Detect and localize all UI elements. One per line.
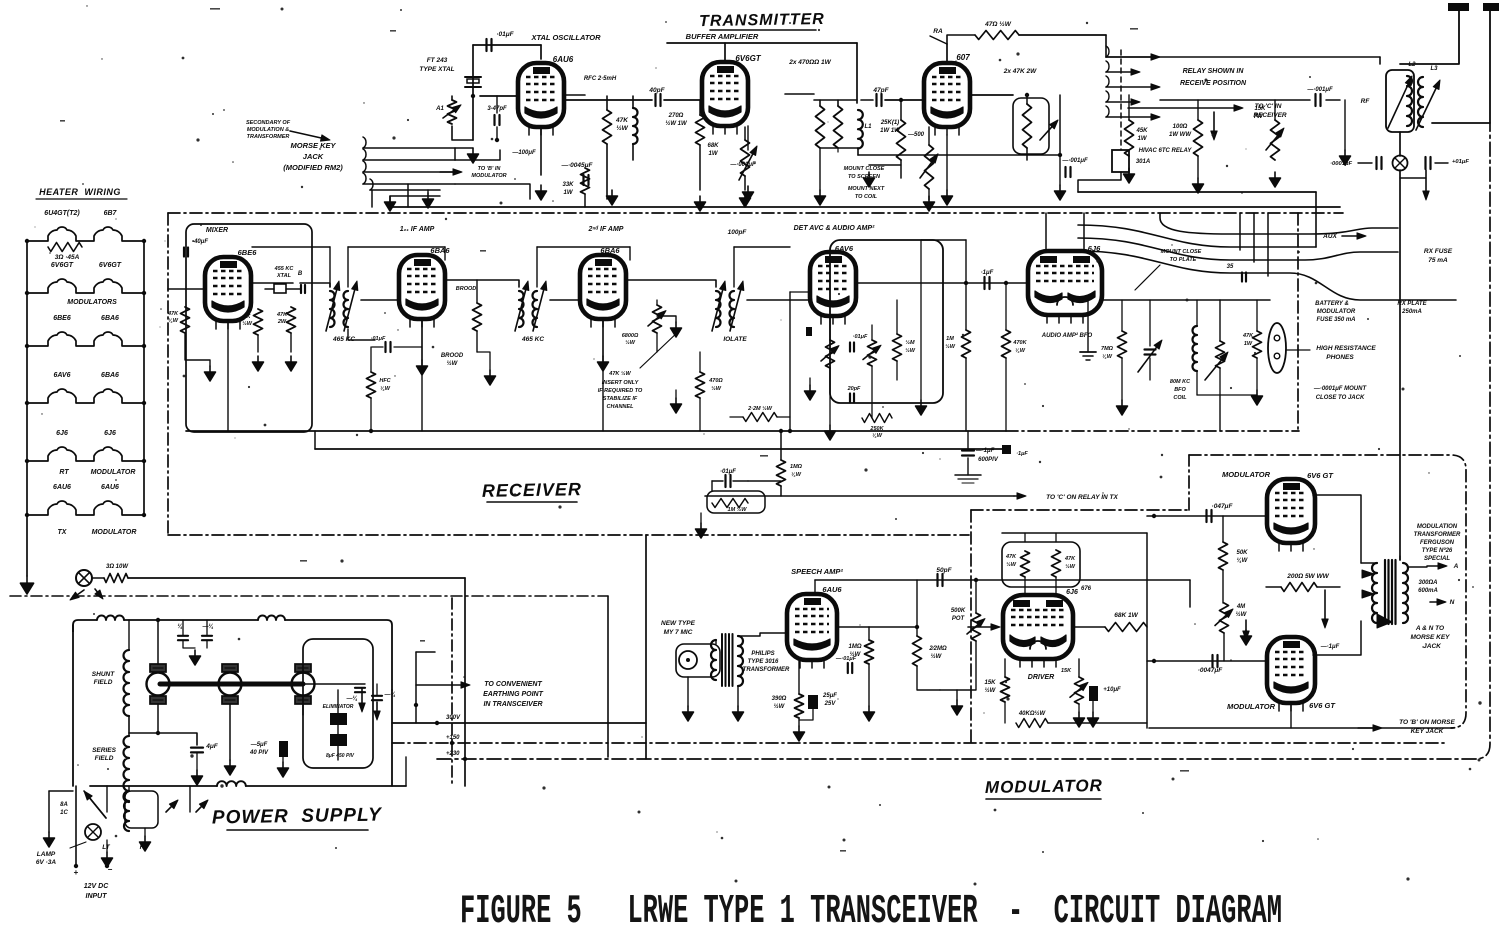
svg-text:½W: ½W: [945, 343, 956, 350]
svg-text:XTAL: XTAL: [276, 273, 292, 279]
svg-text:·047μF: ·047μF: [1212, 503, 1234, 510]
svg-text:TRANSMITTER: TRANSMITTER: [699, 11, 825, 30]
svg-text:465 KC: 465 KC: [521, 336, 544, 343]
svg-text:TYPE 3016: TYPE 3016: [748, 659, 779, 665]
svg-text:½W: ½W: [1236, 611, 1248, 618]
svg-text:MY 7 MIC: MY 7 MIC: [664, 629, 693, 636]
svg-text:68K 1W: 68K 1W: [1114, 612, 1138, 619]
svg-text:47K: 47K: [1005, 554, 1017, 560]
svg-text:4M: 4M: [1236, 604, 1246, 610]
svg-text:6V6GT: 6V6GT: [51, 262, 74, 269]
svg-text:COIL: COIL: [1173, 395, 1187, 401]
svg-text:—¼: —¼: [345, 696, 357, 702]
svg-text:MODULATION: MODULATION: [1417, 524, 1458, 530]
svg-text:6J6: 6J6: [1066, 589, 1078, 596]
svg-text:RX FUSE: RX FUSE: [1424, 248, 1453, 255]
svg-text:50pF: 50pF: [936, 567, 952, 574]
svg-text:FERGUSON: FERGUSON: [1420, 540, 1455, 546]
svg-text:MODULATOR: MODULATOR: [1227, 702, 1276, 711]
svg-text:2x 47K 2W: 2x 47K 2W: [1003, 68, 1037, 75]
svg-text:KEY JACK: KEY JACK: [1411, 728, 1445, 735]
svg-text:50K: 50K: [1236, 550, 1248, 556]
svg-text:•40μF: •40μF: [192, 239, 208, 245]
svg-text:MOUNT NEXT: MOUNT NEXT: [848, 186, 885, 192]
svg-text:6J6: 6J6: [104, 430, 116, 437]
svg-text:1MΩ: 1MΩ: [790, 464, 803, 470]
svg-text:A & N TO: A & N TO: [1415, 625, 1444, 632]
svg-text:390Ω: 390Ω: [772, 696, 787, 702]
svg-text:SECONDARY OF: SECONDARY OF: [246, 120, 291, 126]
svg-text:½W: ½W: [985, 687, 997, 694]
svg-text:INSERT ONLY: INSERT ONLY: [602, 380, 640, 386]
svg-text:½W: ½W: [625, 339, 636, 346]
svg-text:¼W: ¼W: [168, 318, 179, 324]
svg-text:TO 'C' IN: TO 'C' IN: [1255, 103, 1282, 110]
svg-text:·01μF: ·01μF: [853, 334, 868, 340]
svg-text:INPUT: INPUT: [86, 893, 108, 900]
svg-text:TX: TX: [58, 529, 68, 536]
svg-text:—·001μF: —·001μF: [1061, 158, 1088, 164]
svg-text:(MODIFIED RM2): (MODIFIED RM2): [283, 163, 343, 172]
svg-text:RECEIVER: RECEIVER: [482, 479, 582, 501]
svg-text:6AU6: 6AU6: [822, 585, 842, 594]
svg-text:TO COIL: TO COIL: [855, 194, 878, 200]
svg-text:40pF: 40pF: [648, 87, 665, 94]
svg-text:RT: RT: [59, 469, 69, 476]
svg-text:½M: ½M: [905, 339, 915, 346]
svg-text:HFC: HFC: [379, 378, 391, 384]
svg-text:40 PIV: 40 PIV: [249, 750, 269, 756]
svg-text:6AV6: 6AV6: [54, 372, 71, 379]
svg-text:½W: ½W: [774, 703, 786, 710]
svg-text:¼W: ¼W: [1237, 558, 1249, 564]
svg-text:FIELD: FIELD: [95, 755, 114, 762]
svg-text:300V: 300V: [446, 715, 461, 721]
svg-text:RA: RA: [933, 28, 943, 35]
svg-text:676: 676: [1081, 586, 1092, 592]
svg-text:L3: L3: [1430, 66, 1438, 72]
svg-text:SPECIAL: SPECIAL: [1424, 556, 1450, 562]
svg-text:¼W: ¼W: [1015, 348, 1026, 354]
svg-text:MOUNT CLOSE: MOUNT CLOSE: [1161, 249, 1202, 255]
svg-text:BFO: BFO: [1174, 387, 1186, 393]
svg-text:301A: 301A: [1136, 159, 1150, 165]
svg-text:BATTERY &: BATTERY &: [1315, 301, 1349, 307]
svg-text:15K: 15K: [984, 680, 996, 686]
svg-text:MODULATOR: MODULATOR: [92, 529, 137, 536]
svg-text:300ΩA: 300ΩA: [1418, 580, 1437, 586]
svg-text:47K: 47K: [276, 312, 288, 318]
svg-text:270Ω: 270Ω: [668, 113, 684, 119]
svg-text:6BA6: 6BA6: [101, 315, 119, 322]
svg-text:20pF: 20pF: [847, 386, 861, 392]
svg-text:MODULATOR: MODULATOR: [1317, 309, 1356, 315]
svg-text:TRANSFORMER: TRANSFORMER: [743, 667, 790, 673]
svg-text:47pF: 47pF: [872, 87, 889, 94]
svg-text:4μF: 4μF: [205, 743, 219, 750]
svg-text:6V6 GT: 6V6 GT: [1309, 701, 1336, 710]
svg-text:·0047μF: ·0047μF: [1198, 667, 1224, 674]
svg-text:455 KC: 455 KC: [274, 266, 295, 272]
svg-text:RELAY SHOWN IN: RELAY SHOWN IN: [1183, 68, 1245, 75]
svg-text:68K: 68K: [707, 143, 719, 149]
svg-text:6AU6: 6AU6: [553, 55, 574, 64]
svg-text:—·0045μF: —·0045μF: [560, 162, 593, 169]
svg-text:TRANSFORMER: TRANSFORMER: [247, 134, 290, 140]
svg-text:MIXER: MIXER: [206, 227, 228, 234]
svg-text:·01μF: ·01μF: [371, 336, 386, 342]
svg-text:IN TRANSCEIVER: IN TRANSCEIVER: [483, 701, 542, 708]
svg-text:EARTHING POINT: EARTHING POINT: [483, 691, 543, 698]
svg-text:1W: 1W: [709, 151, 719, 157]
svg-text:250K: 250K: [869, 426, 884, 432]
svg-text:½W 1W: ½W 1W: [665, 120, 688, 127]
svg-text:7MΩ: 7MΩ: [1101, 346, 1114, 352]
svg-text:JACK: JACK: [303, 152, 324, 161]
svg-text:47K ½W: 47K ½W: [608, 370, 631, 377]
svg-text:½W: ½W: [242, 320, 253, 327]
svg-text:½W: ½W: [447, 360, 459, 367]
svg-text:607: 607: [956, 53, 970, 62]
svg-text:RF: RF: [1361, 98, 1371, 105]
svg-text:TRANSFORMER: TRANSFORMER: [1414, 532, 1461, 538]
svg-text:TYPE XTAL: TYPE XTAL: [419, 66, 454, 73]
svg-text:1W WW: 1W WW: [1169, 132, 1192, 138]
svg-text:N: N: [1450, 599, 1455, 606]
svg-text:500K: 500K: [951, 608, 966, 614]
svg-text:600mA: 600mA: [1418, 588, 1438, 594]
svg-text:+10μF: +10μF: [1103, 687, 1121, 693]
svg-text:25K(1): 25K(1): [880, 120, 899, 126]
svg-text:12V DC: 12V DC: [84, 883, 109, 890]
svg-text:½W: ½W: [1065, 563, 1076, 570]
svg-text:250mA: 250mA: [1401, 309, 1422, 315]
svg-text:¼W: ¼W: [1102, 354, 1113, 360]
svg-text:6J6: 6J6: [56, 430, 68, 437]
svg-text:DET AVC & AUDIO AMP²: DET AVC & AUDIO AMP²: [794, 225, 875, 232]
svg-text:STABILIZE IF: STABILIZE IF: [603, 396, 638, 402]
svg-text:6800Ω: 6800Ω: [622, 333, 639, 339]
svg-text:2ⁿᵈ IF AMP: 2ⁿᵈ IF AMP: [588, 226, 624, 233]
svg-text:+01μF: +01μF: [1452, 159, 1469, 165]
svg-text:BROOD: BROOD: [456, 286, 477, 292]
svg-text:47K: 47K: [167, 311, 179, 317]
svg-text:LAMP: LAMP: [37, 851, 56, 858]
svg-text:6V6GT: 6V6GT: [99, 262, 122, 269]
svg-text:−: −: [108, 865, 113, 874]
svg-text:NEW TYPE: NEW TYPE: [661, 620, 696, 627]
svg-text:B: B: [298, 271, 303, 277]
svg-text:—·0001μF MOUNT: —·0001μF MOUNT: [1313, 386, 1368, 392]
svg-text:8A: 8A: [60, 802, 68, 808]
svg-text:SHUNT: SHUNT: [92, 671, 115, 678]
svg-text:—·1μF: —·1μF: [1320, 644, 1340, 650]
svg-text:2⁄2MΩ: 2⁄2MΩ: [928, 646, 947, 652]
svg-text:8μF 450 PIV: 8μF 450 PIV: [326, 753, 355, 759]
svg-text:33K: 33K: [562, 182, 574, 188]
svg-text:MODULATORS: MODULATORS: [67, 299, 117, 306]
svg-text:6AU6: 6AU6: [101, 484, 119, 491]
svg-text:MODULATOR: MODULATOR: [471, 173, 506, 179]
svg-text:IF REQUIRED TO: IF REQUIRED TO: [598, 388, 643, 394]
svg-text:POT: POT: [952, 616, 966, 622]
svg-text:600PIV: 600PIV: [978, 457, 999, 463]
svg-text:—·001μF: —·001μF: [1306, 87, 1333, 93]
svg-text:A: A: [1453, 563, 1459, 570]
svg-text:MODULATOR: MODULATOR: [985, 776, 1103, 797]
svg-text:RECEIVER: RECEIVER: [1253, 112, 1287, 119]
svg-text:¼W: ¼W: [380, 386, 391, 392]
svg-text:6BE6: 6BE6: [53, 315, 71, 322]
svg-text:FT 243: FT 243: [427, 57, 448, 64]
svg-text:MORSE KEY: MORSE KEY: [1410, 634, 1450, 641]
svg-text:¼W: ¼W: [872, 433, 883, 439]
svg-text:35: 35: [1227, 264, 1234, 270]
svg-text:A1: A1: [435, 106, 444, 112]
svg-text:MODULATOR: MODULATOR: [1222, 470, 1271, 479]
svg-text:·1μF: ·1μF: [1016, 451, 1028, 457]
svg-text:SERIES: SERIES: [92, 747, 117, 754]
svg-text:·1μF: ·1μF: [981, 270, 994, 276]
svg-text:½W: ½W: [711, 385, 722, 392]
svg-text:—·001μF: —·001μF: [729, 162, 756, 168]
svg-text:·01μF: ·01μF: [496, 31, 514, 38]
svg-text:¼: ¼: [177, 624, 182, 630]
svg-text:XTAL OSCILLATOR: XTAL OSCILLATOR: [530, 33, 601, 42]
svg-text:ELIMINATOR: ELIMINATOR: [323, 704, 354, 710]
svg-text:470Ω: 470Ω: [708, 378, 723, 384]
svg-text:75 mA: 75 mA: [1428, 257, 1448, 264]
svg-text:6AV6: 6AV6: [835, 244, 854, 253]
svg-text:MODULATOR: MODULATOR: [91, 469, 136, 476]
svg-text:1M: 1M: [946, 336, 954, 342]
svg-text:FIGURE 5 LRWE TYPE 1 TRANSCE: FIGURE 5 LRWE TYPE 1 TRANSCEIVER - CIRCU…: [460, 889, 1282, 935]
svg-text:1MΩ: 1MΩ: [848, 644, 861, 650]
svg-text:6V6GT: 6V6GT: [735, 54, 761, 63]
svg-text:40KΩ½W: 40KΩ½W: [1018, 710, 1047, 717]
svg-text:6AU6: 6AU6: [53, 484, 71, 491]
svg-text:6U4GT(T2): 6U4GT(T2): [44, 210, 80, 217]
svg-text:+: +: [74, 868, 79, 877]
svg-text:½W: ½W: [616, 124, 628, 132]
svg-text:FUSE 350 mA: FUSE 350 mA: [1316, 317, 1355, 323]
svg-text:3Ω ·45A: 3Ω ·45A: [55, 254, 80, 261]
svg-text:1K: 1K: [243, 314, 251, 320]
svg-text:2x 470ΩΩ 1W: 2x 470ΩΩ 1W: [788, 59, 831, 66]
svg-text:TYPE Nº26: TYPE Nº26: [1422, 547, 1453, 554]
svg-text:CHANNEL: CHANNEL: [607, 404, 635, 410]
svg-text:CLOSE TO JACK: CLOSE TO JACK: [1316, 395, 1365, 401]
svg-text:HIVAC 6TC RELAY: HIVAC 6TC RELAY: [1139, 148, 1193, 154]
svg-text:25V: 25V: [824, 701, 837, 707]
svg-text:47K: 47K: [615, 117, 629, 124]
svg-text:+230: +230: [446, 751, 460, 757]
svg-text:1W: 1W: [1138, 136, 1148, 142]
svg-text:1C: 1C: [60, 810, 68, 816]
svg-text:—·01μF: —·01μF: [835, 656, 857, 662]
svg-text:6V6 GT: 6V6 GT: [1307, 471, 1334, 480]
svg-text:470K: 470K: [1012, 340, 1027, 346]
svg-text:45K: 45K: [1135, 128, 1148, 134]
svg-text:RX PLATE: RX PLATE: [1397, 301, 1427, 307]
svg-text:HEATER WIRING: HEATER WIRING: [39, 187, 121, 197]
svg-text:—100μF: —100μF: [511, 150, 536, 156]
svg-text:¼W: ¼W: [791, 472, 802, 478]
svg-text:·0001μF: ·0001μF: [1330, 161, 1352, 167]
svg-text:½W: ½W: [905, 347, 916, 354]
svg-text:6J6: 6J6: [1088, 244, 1101, 253]
svg-text:DRIVER: DRIVER: [1028, 674, 1054, 681]
svg-text:+150: +150: [446, 735, 460, 741]
svg-text:47K: 47K: [1064, 556, 1076, 562]
svg-text:BROOD: BROOD: [441, 353, 464, 359]
svg-text:100Ω: 100Ω: [1173, 124, 1188, 130]
svg-text:25μF: 25μF: [822, 693, 837, 699]
svg-text:·01μF: ·01μF: [720, 469, 736, 475]
svg-text:TO 'B' ON MORSE: TO 'B' ON MORSE: [1399, 719, 1455, 726]
svg-text:MORSE KEY: MORSE KEY: [290, 141, 336, 150]
svg-text:SPEECH AMP²: SPEECH AMP²: [791, 567, 843, 576]
svg-text:TO PLATE: TO PLATE: [1170, 257, 1197, 263]
svg-text:—5μF: —5μF: [250, 742, 268, 748]
svg-text:2W: 2W: [277, 319, 287, 325]
svg-text:POWER SUPPLY: POWER SUPPLY: [212, 804, 384, 828]
svg-text:1W: 1W: [564, 190, 574, 196]
svg-text:47Ω ½W: 47Ω ½W: [984, 20, 1012, 28]
svg-text:2·2M ½W: 2·2M ½W: [747, 405, 773, 412]
svg-text:½W: ½W: [1006, 561, 1017, 568]
svg-text:—·1μF: —·1μF: [975, 448, 995, 454]
svg-text:BUFFER AMPLIFIER: BUFFER AMPLIFIER: [686, 32, 759, 41]
svg-text:1₀₁ IF AMP: 1₀₁ IF AMP: [400, 226, 435, 233]
svg-text:PHILIPS: PHILIPS: [751, 651, 774, 657]
svg-text:MOUNT CLOSE: MOUNT CLOSE: [844, 166, 885, 172]
svg-text:AUX: AUX: [1322, 233, 1337, 240]
svg-text:—500: —500: [907, 132, 925, 138]
svg-text:200Ω 5W WW: 200Ω 5W WW: [1286, 573, 1329, 580]
svg-text:HIGH RESISTANCE: HIGH RESISTANCE: [1316, 345, 1376, 352]
svg-text:RFC 2·5mH: RFC 2·5mH: [584, 76, 617, 82]
svg-text:TO CONVENIENT: TO CONVENIENT: [484, 681, 542, 688]
svg-text:6B7: 6B7: [104, 210, 118, 217]
svg-text:—¼: —¼: [383, 692, 395, 698]
svg-text:6BA6: 6BA6: [101, 372, 119, 379]
svg-text:IOLATE: IOLATE: [723, 336, 747, 343]
svg-text:L1: L1: [864, 124, 872, 130]
svg-text:3Ω 10W: 3Ω 10W: [106, 564, 129, 570]
svg-text:½W: ½W: [931, 653, 943, 660]
svg-text:TO 'C' ON RELAY IN TX: TO 'C' ON RELAY IN TX: [1046, 494, 1118, 501]
svg-text:1M ½W: 1M ½W: [728, 506, 748, 513]
svg-text:6V ·3A: 6V ·3A: [36, 859, 57, 866]
svg-text:JACK: JACK: [1423, 643, 1442, 650]
svg-text:RECEIVE POSITION: RECEIVE POSITION: [1180, 80, 1247, 87]
svg-text:PHONES: PHONES: [1326, 354, 1354, 361]
svg-text:100pF: 100pF: [728, 229, 748, 236]
svg-text:1W: 1W: [1244, 341, 1253, 347]
svg-text:AUDIO AMP² BFO: AUDIO AMP² BFO: [1041, 332, 1093, 339]
svg-text:L2: L2: [1408, 62, 1416, 68]
svg-text:15K: 15K: [1061, 668, 1072, 674]
svg-text:6BE6: 6BE6: [238, 248, 258, 257]
svg-text:80M KC: 80M KC: [1170, 379, 1191, 385]
svg-text:MODULATION &: MODULATION &: [247, 127, 289, 133]
svg-text:FIELD: FIELD: [94, 679, 113, 686]
svg-text:TO 'B' IN: TO 'B' IN: [478, 166, 502, 172]
